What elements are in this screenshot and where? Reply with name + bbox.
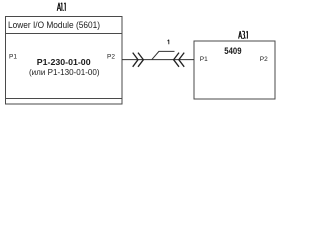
svg-text:P1: P1 (9, 54, 17, 61)
svg-text:P2: P2 (107, 54, 115, 61)
svg-text:5409: 5409 (224, 46, 241, 56)
svg-text:P1-230-01-00: P1-230-01-00 (37, 57, 91, 67)
svg-text:P1: P1 (200, 56, 208, 63)
svg-text:(или P1-130-01-00): (или P1-130-01-00) (29, 68, 100, 77)
svg-text:Lower I/O Module (5601): Lower I/O Module (5601) (8, 20, 100, 30)
svg-text:P2: P2 (260, 56, 268, 63)
